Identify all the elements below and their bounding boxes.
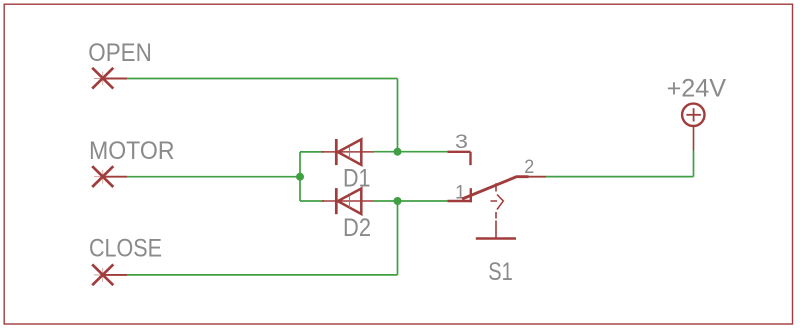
diode D1 xyxy=(322,139,374,165)
junction node D2 xyxy=(394,197,402,205)
wire D1 cathode to node xyxy=(374,151,448,153)
svg-text:3: 3 xyxy=(455,131,468,153)
switch S1 lever xyxy=(462,177,529,199)
wire CLOSE horizontal xyxy=(127,274,398,276)
pin stub (MOTOR) xyxy=(103,176,127,178)
pin stub (CLOSE) xyxy=(103,274,127,276)
wire vertical branch at x=300 xyxy=(299,152,301,201)
wire D2 cathode to node xyxy=(374,200,448,202)
wire switch to +24V xyxy=(546,176,694,178)
switch S1 button bar xyxy=(476,237,516,240)
svg-text:D2: D2 xyxy=(343,214,371,242)
wire MOTOR horizontal xyxy=(127,176,300,178)
svg-text:CLOSE: CLOSE xyxy=(89,235,162,263)
switch S1 contact 3 xyxy=(469,152,471,165)
svg-text:+24V: +24V xyxy=(667,74,727,102)
wire vertical to supply xyxy=(693,151,695,177)
junction node D1 xyxy=(394,148,402,156)
diode D2 xyxy=(322,188,374,214)
wire OPEN vertical down to D1 node xyxy=(397,79,399,152)
wire OPEN horizontal xyxy=(127,78,398,80)
switch S1 actuator arrow xyxy=(491,195,504,210)
svg-text:S1: S1 xyxy=(488,258,513,286)
switch S1 actuator dashes xyxy=(495,183,497,238)
junction node MOTOR xyxy=(296,173,304,181)
switch S1 pin 2 xyxy=(528,176,546,178)
switch S1 pin 1 xyxy=(448,200,473,202)
svg-text:2: 2 xyxy=(524,156,534,178)
supply pin xyxy=(693,127,695,151)
wire to D1 anode xyxy=(300,151,324,153)
svg-text:MOTOR: MOTOR xyxy=(89,137,175,165)
svg-text:OPEN: OPEN xyxy=(88,39,152,67)
pin marker X (OPEN) xyxy=(92,68,113,89)
wire to D2 anode xyxy=(300,200,324,202)
switch S1 contact 1 xyxy=(470,188,472,202)
switch S1 pin 3 xyxy=(448,151,471,153)
pin marker X (CLOSE) xyxy=(92,264,113,285)
supply symbol plus xyxy=(686,108,701,121)
supply symbol +24V circle xyxy=(682,104,704,126)
pin marker X (MOTOR) xyxy=(92,166,113,187)
pin stub (OPEN) xyxy=(103,78,127,80)
wire CLOSE vertical up to D2 node xyxy=(397,201,399,275)
svg-text:D1: D1 xyxy=(343,165,371,193)
